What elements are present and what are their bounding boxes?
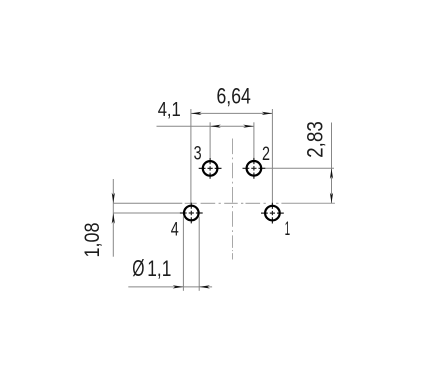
dimension 2,83 up arrow	[330, 168, 333, 179]
dimension 4,1 left arrow	[210, 125, 221, 128]
dimension 6,64 right extension line (to hole 1)	[271, 109, 273, 205]
svg-text:Ø: Ø	[132, 255, 144, 281]
hole 1 circle	[265, 206, 280, 221]
dimension 1,08 upper arrow (pointing down)	[112, 193, 115, 204]
dimension Ø1,1 left arrow (pointing right)	[173, 285, 184, 288]
dimension Ø1,1 left extension line (hole 4 left tangent)	[182, 217, 184, 291]
extension line hole2 row to right (2,83 top reference)	[262, 167, 334, 169]
dimension 6,64 left extension line (to hole 4)	[190, 109, 192, 204]
dimension 6,64 right arrow	[262, 112, 273, 115]
dimension Ø1,1 right arrow (pointing left)	[199, 285, 210, 288]
dimension 6,64 left arrow	[191, 112, 202, 115]
dimension 1,08 lower arrow (pointing up)	[112, 213, 115, 224]
hole 3 circle	[203, 161, 218, 176]
svg-text:4: 4	[171, 220, 179, 241]
vertical centerline (chain line, symmetry axis)	[232, 139, 234, 260]
dimension 2,83 line	[331, 123, 333, 204]
hole 3 center mark	[199, 158, 222, 179]
dimension 2,83 down arrow	[330, 193, 333, 204]
svg-text:1,08: 1,08	[80, 222, 104, 257]
hole 2 circle	[247, 161, 262, 176]
dimension 4,1 line with tail under text	[157, 125, 254, 127]
svg-text:3: 3	[194, 143, 202, 164]
dimension 4,1 right arrow	[243, 125, 254, 128]
hole 1 center mark	[261, 203, 284, 224]
dimension Ø1,1 line	[128, 286, 212, 288]
svg-text:1,1: 1,1	[147, 256, 171, 281]
hole 4 circle	[184, 206, 199, 221]
horizontal centerline (chain line, main axis)	[113, 202, 335, 204]
svg-text:6,64: 6,64	[217, 83, 251, 108]
dimension 4,1 left extension line (to hole 3)	[209, 122, 211, 160]
svg-text:2: 2	[262, 144, 270, 165]
dimension 6,64 line	[191, 112, 273, 114]
hole 4 center mark	[180, 203, 203, 224]
svg-text:2,83: 2,83	[302, 121, 327, 158]
dimension Ø1,1 right extension line (hole 4 right tangent)	[198, 217, 200, 291]
dimension 4,1 right extension line (to hole 2)	[253, 122, 255, 160]
svg-text:4,1: 4,1	[158, 98, 181, 121]
svg-text:1: 1	[285, 219, 291, 240]
dimension 1,08 line	[112, 179, 114, 257]
extension line hole4 center row (1,08 bottom reference)	[113, 212, 180, 214]
hole 2 center mark	[243, 158, 266, 179]
